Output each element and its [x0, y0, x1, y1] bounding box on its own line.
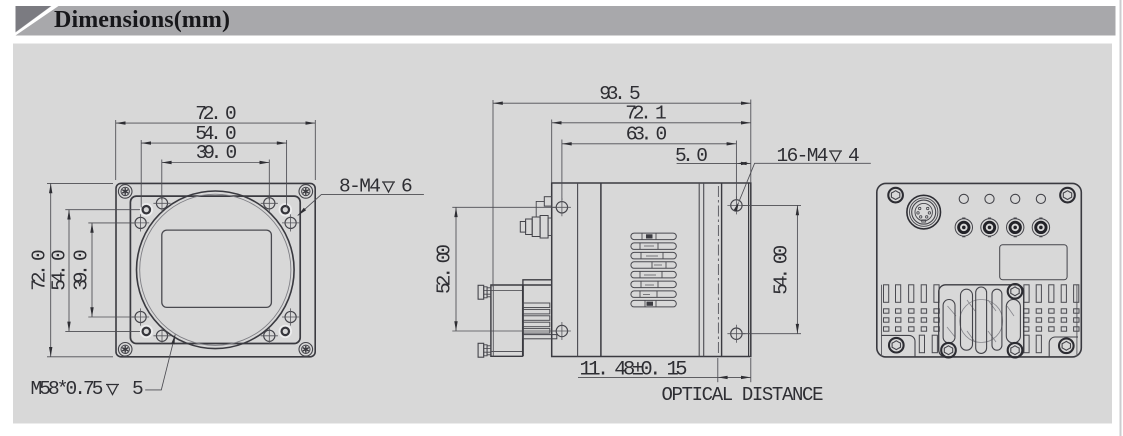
svg-text:54. 0: 54. 0 — [49, 249, 71, 291]
vert dim 72.0 ext — [47, 182, 113, 184]
front screw head bottom washers — [484, 345, 487, 356]
svg-text:63. 0: 63. 0 — [626, 124, 668, 146]
dim 54.00 ext — [743, 204, 802, 206]
screw hole top-left — [553, 198, 571, 216]
lens thread inner circle — [140, 194, 291, 345]
vert dim 54.0 line — [68, 210, 70, 332]
dim 72.1 line — [552, 122, 751, 124]
dim 52.00 line — [455, 207, 457, 331]
back inner border line right — [1076, 285, 1078, 356]
M4 hole top-left — [153, 195, 170, 212]
dim 5.0 line — [677, 162, 751, 164]
camera front outer square — [116, 183, 315, 356]
lens box outline — [491, 285, 552, 356]
dim 63.0 ext — [561, 140, 563, 201]
plate torx screw bottom-right — [1008, 343, 1023, 358]
vert dim 39.0 ext — [88, 222, 134, 224]
M4 hole right-upper — [282, 214, 299, 231]
M4 hole top-right — [261, 195, 278, 212]
svg-text:5: 5 — [132, 378, 144, 400]
vent slot row 3 — [631, 252, 676, 259]
fan plate — [939, 285, 1024, 357]
dim 11.48 ext — [717, 358, 719, 382]
dim 63.0 line — [562, 143, 737, 145]
svg-text:72. 0: 72. 0 — [29, 249, 51, 291]
grille top slot row left — [884, 285, 889, 303]
svg-text:54. 00: 54. 00 — [771, 245, 793, 295]
dim 72.0 top: dimension line — [116, 122, 316, 124]
grille square rows right — [1024, 309, 1080, 313]
dim 52.00 ext — [452, 206, 556, 208]
corner screw TL — [118, 185, 132, 199]
label plate rect — [1000, 245, 1067, 280]
arrows front dims — [116, 121, 126, 124]
svg-text:72. 1: 72. 1 — [625, 103, 667, 125]
body internal line front plate A — [577, 183, 579, 357]
screw hole top-right — [727, 196, 745, 214]
svg-text:M58*0.75: M58*0.75 — [31, 378, 104, 400]
body internal line rear B — [703, 183, 705, 357]
dim 93.5 ext lines — [452, 100, 801, 383]
ring hole BL — [140, 326, 152, 338]
M4 hole right-lower — [282, 308, 299, 325]
M4 hole bottom-left — [153, 327, 170, 344]
lens box inner double lines — [491, 285, 523, 356]
vent slot row 4 — [631, 262, 676, 269]
heatsink fin 4 — [523, 322, 550, 327]
dim 39.0 line — [162, 162, 269, 164]
ring hole TR — [279, 204, 291, 216]
grille top slot row right — [1024, 285, 1029, 303]
heatsink fin 6 long — [523, 335, 557, 339]
corner screw BR — [299, 343, 313, 357]
svg-text:39. 0: 39. 0 — [71, 249, 93, 291]
body internal line front plate B — [600, 183, 602, 357]
svg-text:5. 0: 5. 0 — [675, 145, 708, 167]
corner screw TR — [299, 185, 313, 199]
dim 11.48 line — [578, 376, 751, 378]
back inner border line left — [881, 285, 883, 356]
vent slot row 2 — [631, 243, 676, 250]
main body outline — [552, 183, 751, 357]
svg-text:72. 0: 72. 0 — [195, 103, 237, 125]
svg-text:39. 0: 39. 0 — [196, 142, 238, 164]
LED hole 2 — [985, 194, 994, 203]
plate capsule slot 5 — [1006, 300, 1020, 344]
screw hole bottom-right — [727, 325, 745, 343]
SMA connector 1 — [955, 218, 972, 237]
torx screw BL (corner) — [889, 338, 904, 353]
dim 54.0 top ext — [140, 140, 142, 208]
grille bottom slots right — [1024, 335, 1029, 353]
connector L-line — [536, 201, 544, 217]
flange inner line — [721, 183, 723, 357]
M4 hole left-lower — [132, 308, 149, 325]
svg-text:93. 5: 93. 5 — [599, 83, 641, 105]
torx screw TL — [888, 188, 903, 203]
vert dim 39.0 line — [91, 223, 93, 317]
grille square rows left — [884, 309, 940, 313]
vert dim 72.0 line — [50, 183, 52, 356]
plate capsule slot 3 — [976, 287, 987, 353]
plate capsule slot 1 — [943, 300, 955, 344]
label M58 leader — [145, 335, 175, 390]
corner screw BL — [118, 343, 132, 357]
vert dim 54.0 ext — [65, 209, 140, 211]
M4 hole bottom-right — [261, 327, 278, 344]
front inner plate — [130, 196, 300, 343]
plate torx screw bottom-left — [941, 343, 956, 358]
front screw head top cap — [478, 285, 484, 299]
bottom-left corner panel — [882, 335, 916, 356]
vent slot row 8 — [631, 300, 676, 307]
dim 54.00 line — [796, 205, 798, 333]
heatsink fin 1 — [523, 303, 550, 308]
header band — [16, 6, 1116, 36]
header white stripe — [16, 6, 59, 36]
body internal line rear A — [698, 183, 700, 357]
fan circle — [960, 300, 1003, 343]
label 8-M4 leader — [298, 195, 424, 216]
top-left small tab — [544, 197, 551, 206]
dim 39.0 top ext — [161, 160, 163, 201]
sensor window rect — [162, 230, 272, 307]
front screw head bottom cap — [478, 343, 484, 357]
bottom-right corner panel — [1049, 337, 1078, 357]
svg-text:52. 00: 52. 00 — [434, 244, 456, 294]
vent slot row 5 — [631, 271, 676, 278]
dim 93.5 line — [493, 102, 751, 104]
arrows side dims — [493, 102, 503, 105]
dim 72.0 top: extension lines — [47, 120, 315, 357]
svg-text:OPTICAL DISTANCE: OPTICAL DISTANCE — [662, 384, 824, 406]
sensor plane dash-dot line — [717, 186, 719, 354]
flange right face double line — [748, 183, 750, 357]
label 16-M4 leader — [739, 163, 871, 201]
vent slot row 7 — [631, 291, 676, 298]
front screw head top washers — [484, 287, 487, 298]
lens box right face — [522, 285, 524, 356]
LED hole 1 — [959, 194, 968, 203]
connector tip — [520, 222, 525, 233]
lens flange plate — [523, 280, 552, 357]
connector barrel — [526, 219, 533, 235]
plate capsule slot 2 — [961, 289, 973, 350]
header dark triangle — [16, 6, 52, 32]
back outer square — [877, 183, 1082, 357]
SMA connector 4 — [1032, 218, 1049, 237]
dim 72.1 ext — [551, 120, 553, 184]
ring hole TL — [140, 204, 152, 216]
LED hole 3 — [1011, 194, 1020, 203]
lens mount circle M58 — [137, 191, 295, 349]
svg-text:11. 48±0. 15: 11. 48±0. 15 — [580, 359, 688, 382]
ring hole BR — [279, 326, 291, 338]
screw hole bottom-left — [553, 322, 571, 340]
dim 54.0 line — [141, 142, 286, 144]
heatsink fin 2 — [523, 309, 550, 314]
torx screw BR (corner) — [1059, 339, 1074, 354]
torx screw TR — [1060, 188, 1075, 203]
vent slot dividers — [640, 233, 666, 307]
heatsink fin 3 — [523, 316, 550, 321]
vent dark marks — [646, 234, 653, 238]
fan blade lines — [947, 300, 1014, 342]
vent slot row 6 — [631, 281, 676, 288]
plate torx screw top-right — [1008, 284, 1023, 299]
M4 hole left-upper — [132, 214, 149, 231]
SMA connector 3 — [1007, 218, 1024, 237]
connector neck to body — [548, 218, 552, 236]
round connector M12 — [907, 195, 941, 229]
connector mid — [532, 217, 540, 237]
LED hole 4 — [1036, 194, 1045, 203]
heatsink fin 5 — [523, 329, 550, 334]
plate capsule slot 4 — [992, 289, 1002, 350]
grille bottom slots left — [919, 335, 924, 353]
connector flange disc — [540, 216, 548, 239]
vent slot row 1 — [631, 233, 676, 240]
svg-text:Dimensions(mm): Dimensions(mm) — [54, 7, 230, 33]
SMA connector 2 — [981, 218, 998, 237]
right page border line — [1120, 0, 1122, 436]
